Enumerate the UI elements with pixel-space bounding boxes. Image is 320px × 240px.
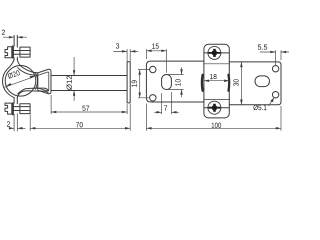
- arrows dim o12: [73, 70, 76, 95]
- dim 3 arrows tails: [113, 50, 138, 52]
- dim 57 exts: [51, 95, 127, 114]
- clamp ring inner wall circle: [5, 66, 36, 97]
- arrows dim 18: [204, 79, 229, 82]
- screw bottom circle: [208, 101, 221, 114]
- dim 15 exts: [146, 49, 166, 73]
- arrows dim 10: [180, 69, 183, 94]
- bottom bolt washer: [12, 103, 13, 115]
- arrows dim 2 bottom: [9, 127, 23, 130]
- dim 10 arrow lines: [181, 67, 183, 97]
- label 2: [7, 121, 10, 126]
- top straps below bolt: [14, 57, 17, 60]
- dim o20 diagonal line: [4, 76, 35, 87]
- label 100: [212, 123, 221, 128]
- top bolt nut: [20, 47, 30, 57]
- label 10: [175, 79, 180, 86]
- dim 3 ext lines: [127, 49, 130, 61]
- dim 10 exts: [168, 75, 184, 90]
- top straps above bolt: [14, 35, 17, 47]
- label 30: [233, 79, 238, 86]
- dim 5.5 exts: [276, 50, 281, 65]
- arrows dim 19: [138, 70, 141, 98]
- bottom-right strap inner line into bottom arm upper edge: [18, 88, 49, 94]
- screw top circle: [208, 46, 221, 59]
- arrows dim 70: [30, 127, 130, 130]
- dim 7 exts: [162, 92, 172, 114]
- dimension linework: [3, 37, 289, 131]
- dim 7 arrows tails: [154, 111, 179, 113]
- top-right strap inner line into arm lower edge: [18, 68, 38, 76]
- top bolt shank lines: [14, 51, 31, 55]
- label 3: [116, 43, 119, 48]
- dim 2 top: line and exts: [3, 36, 27, 38]
- ring outer-right arc: [35, 73, 37, 90]
- dim 70 exts: [30, 104, 130, 131]
- dim 70 line: [30, 127, 130, 129]
- top bolt washer: [12, 46, 13, 58]
- dim 19 exts: [138, 70, 150, 98]
- arrows dim 2 top: [9, 36, 23, 39]
- arrowheads: [6, 36, 286, 130]
- bottom bolt shank lines: [14, 107, 31, 111]
- label Ø5.1: [253, 105, 266, 111]
- socket outer: [38, 69, 51, 94]
- shaft top line: [51, 75, 127, 77]
- clamp strap outer-left contour: [3, 60, 15, 98]
- clamp block inner lines: [204, 64, 229, 100]
- rivet hole top: [150, 66, 156, 72]
- far plate oval hole: [255, 76, 270, 87]
- dim 2 bottom line: [10, 127, 26, 129]
- arrows dim 3: [122, 50, 135, 53]
- dim 30 line: [240, 62, 242, 105]
- label 70: [76, 122, 83, 127]
- arrows dim 5.5: [270, 51, 286, 54]
- dim o12 arrow lines: [73, 57, 75, 101]
- arrows dim 30: [240, 62, 243, 105]
- bottom bolt head: [5, 103, 12, 114]
- label 5.5: [258, 45, 267, 50]
- screw top phillips cross: [208, 49, 220, 112]
- label 15: [152, 43, 159, 48]
- label 19: [131, 80, 136, 87]
- bottom straps below bolt (ext to dim): [14, 114, 17, 131]
- top bolt head: [5, 47, 12, 58]
- screw bottom phillips cross: [208, 104, 220, 112]
- clamp jaw left bar: [201, 75, 204, 91]
- dim 19 line: [139, 70, 141, 98]
- label 18: [210, 74, 217, 79]
- arrows dim 7: [156, 111, 176, 114]
- o5.1 leader: [269, 98, 274, 106]
- bottom bolt nut: [20, 104, 30, 114]
- arrows dim o20: [6, 76, 35, 86]
- arrows dim 100: [146, 127, 281, 130]
- dim 18 line: [204, 80, 229, 82]
- arrows dim 57: [51, 111, 127, 114]
- label 2: [2, 30, 5, 35]
- label 57: [82, 106, 89, 111]
- dimension texts: [2, 30, 267, 128]
- flange plate: [127, 62, 130, 103]
- dim 100 line: [146, 127, 281, 129]
- label Ø20: [7, 70, 20, 79]
- clamp jaw right bar: [227, 75, 230, 91]
- rivet hole bottom: [150, 95, 156, 101]
- clamp block: [204, 44, 229, 118]
- socket inner contour: [38, 72, 49, 91]
- screw top slot line: [204, 52, 229, 54]
- label 7: [164, 105, 167, 110]
- right view plate right section outline: [229, 62, 281, 105]
- shaft bottom line: [51, 90, 127, 92]
- bottom straps above bolt: [14, 98, 17, 104]
- dim 100 exts: [146, 104, 281, 131]
- right view plate left section outline: [146, 61, 204, 102]
- top-right strap outer line into arm upper edge: [17, 60, 38, 73]
- bottom-right strap outer line into bottom arm lower edge: [17, 91, 48, 98]
- label Ø12: [66, 76, 72, 90]
- arrow o5.1 leader: [270, 98, 274, 103]
- far plate hole bottom: [272, 92, 278, 98]
- screw bottom slot line: [204, 107, 229, 109]
- dim 5.5 line: [260, 51, 289, 53]
- dim 57 line: [51, 111, 127, 113]
- dim 15 line: [146, 50, 166, 52]
- arrows dim 15: [146, 50, 166, 53]
- slot hole: [162, 75, 172, 90]
- far plate hole top: [272, 66, 278, 72]
